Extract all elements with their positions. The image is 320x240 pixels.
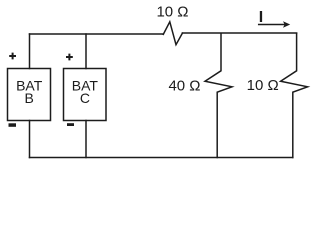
svg-text:10 Ω: 10 Ω bbox=[156, 3, 188, 20]
minus sign battery C bbox=[67, 123, 74, 126]
resistor 10 ohm top (zigzag) bbox=[163, 22, 182, 45]
current arrow head bbox=[283, 21, 290, 27]
resistor 40 ohm (vertical zigzag with leads) bbox=[205, 33, 232, 157]
plus sign battery B bbox=[9, 53, 16, 60]
svg-text:40 Ω: 40 Ω bbox=[168, 77, 200, 94]
wire top bus right segment bbox=[182, 32, 296, 34]
svg-text:I: I bbox=[259, 9, 263, 26]
wire BAT C negative lead bbox=[85, 121, 87, 158]
current arrow shaft bbox=[259, 24, 284, 26]
wire BAT B negative lead bbox=[29, 121, 31, 158]
wire bottom bus bbox=[30, 157, 293, 159]
plus sign battery C bbox=[66, 54, 73, 61]
wire BAT B positive lead bbox=[29, 34, 31, 69]
svg-text:B: B bbox=[25, 90, 34, 106]
svg-text:C: C bbox=[80, 90, 90, 106]
minus sign battery B bbox=[9, 123, 17, 127]
battery BAT B box bbox=[8, 69, 51, 121]
battery BAT C box bbox=[64, 69, 107, 121]
svg-text:10 Ω: 10 Ω bbox=[247, 77, 279, 94]
resistor 10 ohm right (vertical zigzag with leads) bbox=[281, 33, 308, 157]
wire BAT C positive lead bbox=[85, 34, 87, 69]
wire top bus left segment bbox=[30, 33, 164, 35]
